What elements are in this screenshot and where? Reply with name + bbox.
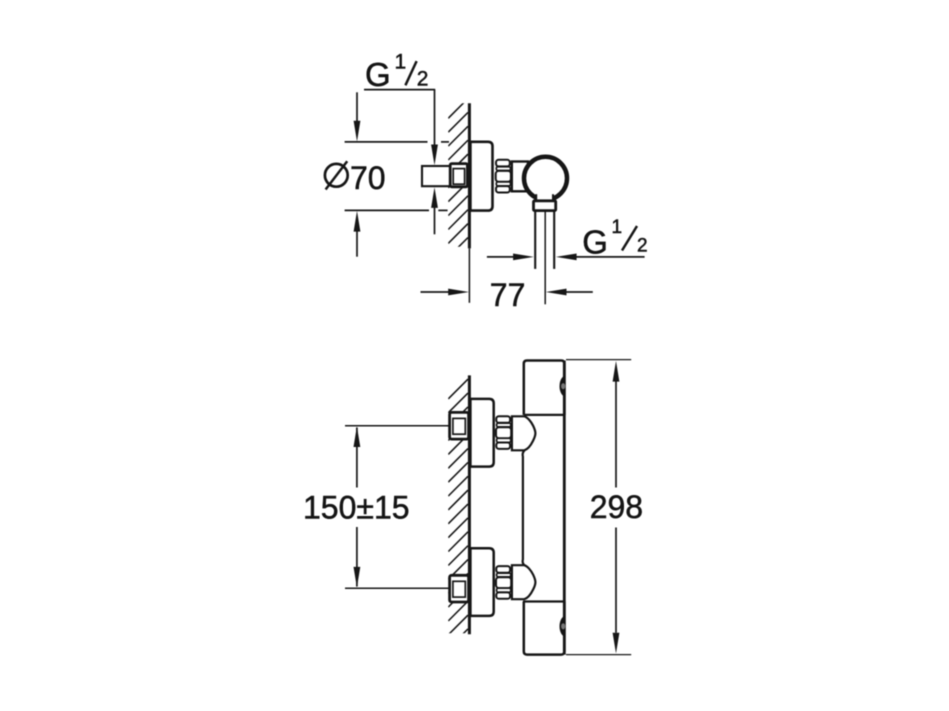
union cone top (bottom view) [512,416,536,450]
thermostat body (bottom view) [523,361,565,655]
G1/2 lower dimension line left part with arrow [487,256,514,258]
77 dimension line left part with arrow [421,291,450,293]
svg-text:298: 298 [590,489,643,525]
outlet collar [534,201,556,211]
handle circle (top view) [524,157,567,200]
77 dimension line right part with arrow [566,291,593,293]
298 extension line top [566,359,631,361]
label Ø70: diameter symbol [325,164,348,187]
union nut (top view) [496,160,511,193]
svg-text:G: G [582,224,608,261]
body right edge [563,361,566,655]
svg-text:77: 77 [490,277,526,313]
outlet pipe centerline / extension for 77 [544,212,546,305]
body top section outline [524,361,565,415]
escutcheon (top view, side profile) [470,142,492,211]
concealed square fitting bottom (bottom view) [450,575,469,602]
supply pipe (top view) [422,166,451,186]
screw head bottom (bottom view) [560,616,566,637]
svg-text:150±15: 150±15 [303,490,410,526]
dimension vertical G1/2 right, lower segment with arrow up to pipe bottom [434,206,436,234]
union cone bottom (bottom view) [512,565,536,599]
svg-text:2: 2 [417,67,429,90]
outlet pipe left wall [534,211,536,269]
150±15 extension line bottom (supply stub) [345,587,450,589]
concealed square fitting (top view) [450,164,467,187]
svg-text:2: 2 [637,236,648,257]
298 extension line bottom [566,654,631,656]
thermostat inlet body (top view) [512,162,528,192]
298 dimension vertical with arrows [615,381,617,488]
wall face extension line for 77 dimension [468,248,470,302]
svg-text:1: 1 [395,51,407,74]
dimension line Ø70 bottom reference [345,209,429,211]
escutcheon top (bottom view) [470,399,493,467]
wall hatching (top view) [448,99,468,272]
wall face line (top view) [468,103,471,248]
screw head top (bottom view) [560,376,566,397]
G1/2 lower dimension line right part with arrow [576,256,645,258]
dimension line under G1/2 top [364,89,435,91]
label G1/2 top: fraction slash [405,61,416,85]
body top transition line [524,414,565,416]
body bottom section outline [524,602,565,655]
svg-text:1: 1 [612,217,623,238]
150±15 dimension vertical with arrows [356,428,358,488]
label G1/2 lower: fraction slash [622,226,637,251]
svg-text:70: 70 [350,160,386,196]
outlet neck in front of circle bottom [537,193,553,201]
wall face line (bottom view) [468,375,471,634]
Ø70 outside arrow from below [356,231,358,257]
svg-text:G: G [365,56,391,93]
wall hatching (bottom view) [448,379,468,662]
concealed square fitting top (bottom view) [450,412,469,439]
dashed continuation of Ø70 bottom reference [438,209,447,211]
escutcheon bottom (bottom view) [470,548,493,616]
150±15 extension line top (supply stub) [345,425,450,427]
body middle-left edge between unions [523,450,525,565]
union nut bottom (bottom view) [496,566,511,599]
dimension extension vertical G1/2 right, upper segment with arrow down to pipe top [434,90,436,146]
dimension line Ø70 top reference [345,141,428,143]
dashed continuation of Ø70 top reference [441,141,449,143]
outlet pipe right wall [553,211,555,269]
union nut top (bottom view) [496,416,511,449]
body bottom transition line [523,600,564,602]
Ø70 outside arrow from above [356,92,358,121]
